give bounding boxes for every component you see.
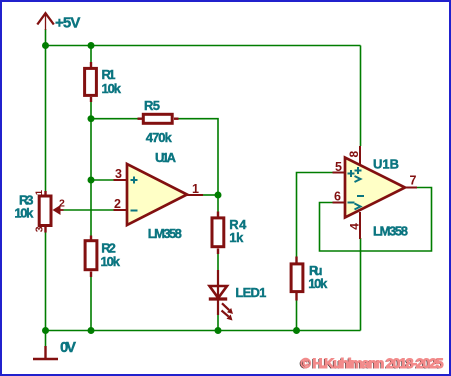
svg-text:8: 8 xyxy=(347,151,361,158)
svg-text:10k: 10k xyxy=(101,254,121,269)
svg-text:0V: 0V xyxy=(60,339,76,356)
svg-text:+5V: +5V xyxy=(55,15,80,32)
svg-text:4: 4 xyxy=(347,223,361,230)
svg-text:U1A: U1A xyxy=(155,150,177,165)
svg-text:10k: 10k xyxy=(102,81,122,96)
svg-text:U1B: U1B xyxy=(373,157,399,172)
svg-text:R1: R1 xyxy=(102,67,116,82)
svg-text:LM358: LM358 xyxy=(148,226,182,241)
svg-text:3: 3 xyxy=(115,167,122,181)
svg-text:10k: 10k xyxy=(308,276,328,291)
svg-text:LM358: LM358 xyxy=(373,224,408,239)
svg-text:6: 6 xyxy=(334,190,341,204)
svg-text:LED1: LED1 xyxy=(235,285,266,300)
svg-text:5: 5 xyxy=(335,160,342,174)
svg-text:1: 1 xyxy=(34,189,45,195)
svg-text:© H.Kuhlmann 2018-2025: © H.Kuhlmann 2018-2025 xyxy=(301,355,444,371)
svg-text:3: 3 xyxy=(34,226,46,232)
svg-text:1k: 1k xyxy=(229,230,244,245)
svg-text:2: 2 xyxy=(114,197,121,211)
svg-text:7: 7 xyxy=(410,174,417,188)
svg-text:R5: R5 xyxy=(144,98,160,113)
svg-text:1: 1 xyxy=(192,182,199,196)
svg-text:2: 2 xyxy=(59,198,65,210)
svg-text:470k: 470k xyxy=(146,130,173,145)
svg-text:10k: 10k xyxy=(14,206,34,221)
